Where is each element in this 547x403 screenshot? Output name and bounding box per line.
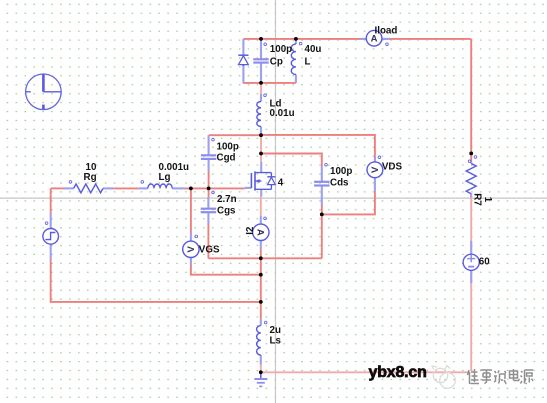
svg-text:A: A	[254, 229, 265, 236]
svg-text:Cp: Cp	[270, 57, 283, 68]
svg-text:Cgd: Cgd	[217, 152, 236, 163]
svg-text:V: V	[186, 245, 197, 252]
svg-text:100p: 100p	[217, 141, 239, 152]
svg-text:40u: 40u	[305, 44, 322, 55]
svg-text:V: V	[370, 166, 381, 173]
svg-text:Ls: Ls	[270, 336, 282, 347]
svg-text:Rg: Rg	[84, 172, 97, 183]
svg-text:L: L	[305, 57, 311, 68]
svg-text:I2: I2	[245, 226, 256, 235]
svg-text:4: 4	[278, 178, 284, 189]
svg-text:2.7n: 2.7n	[217, 194, 237, 205]
svg-text:100p: 100p	[330, 166, 352, 177]
svg-text:0.01u: 0.01u	[270, 108, 295, 119]
svg-text:VGS: VGS	[199, 244, 220, 255]
svg-text:Cgs: Cgs	[217, 206, 236, 217]
svg-text:R7: R7	[472, 193, 483, 206]
svg-text:2u: 2u	[270, 325, 281, 336]
svg-text:Cds: Cds	[330, 178, 349, 189]
svg-text:VDS: VDS	[382, 162, 403, 173]
svg-text:Lg: Lg	[159, 172, 171, 183]
svg-text:60: 60	[479, 257, 490, 268]
svg-text:Iload: Iload	[375, 25, 398, 36]
svg-text:100p: 100p	[270, 44, 292, 55]
svg-text:1: 1	[482, 197, 493, 203]
svg-text:ybx8.cn: ybx8.cn	[369, 364, 427, 381]
